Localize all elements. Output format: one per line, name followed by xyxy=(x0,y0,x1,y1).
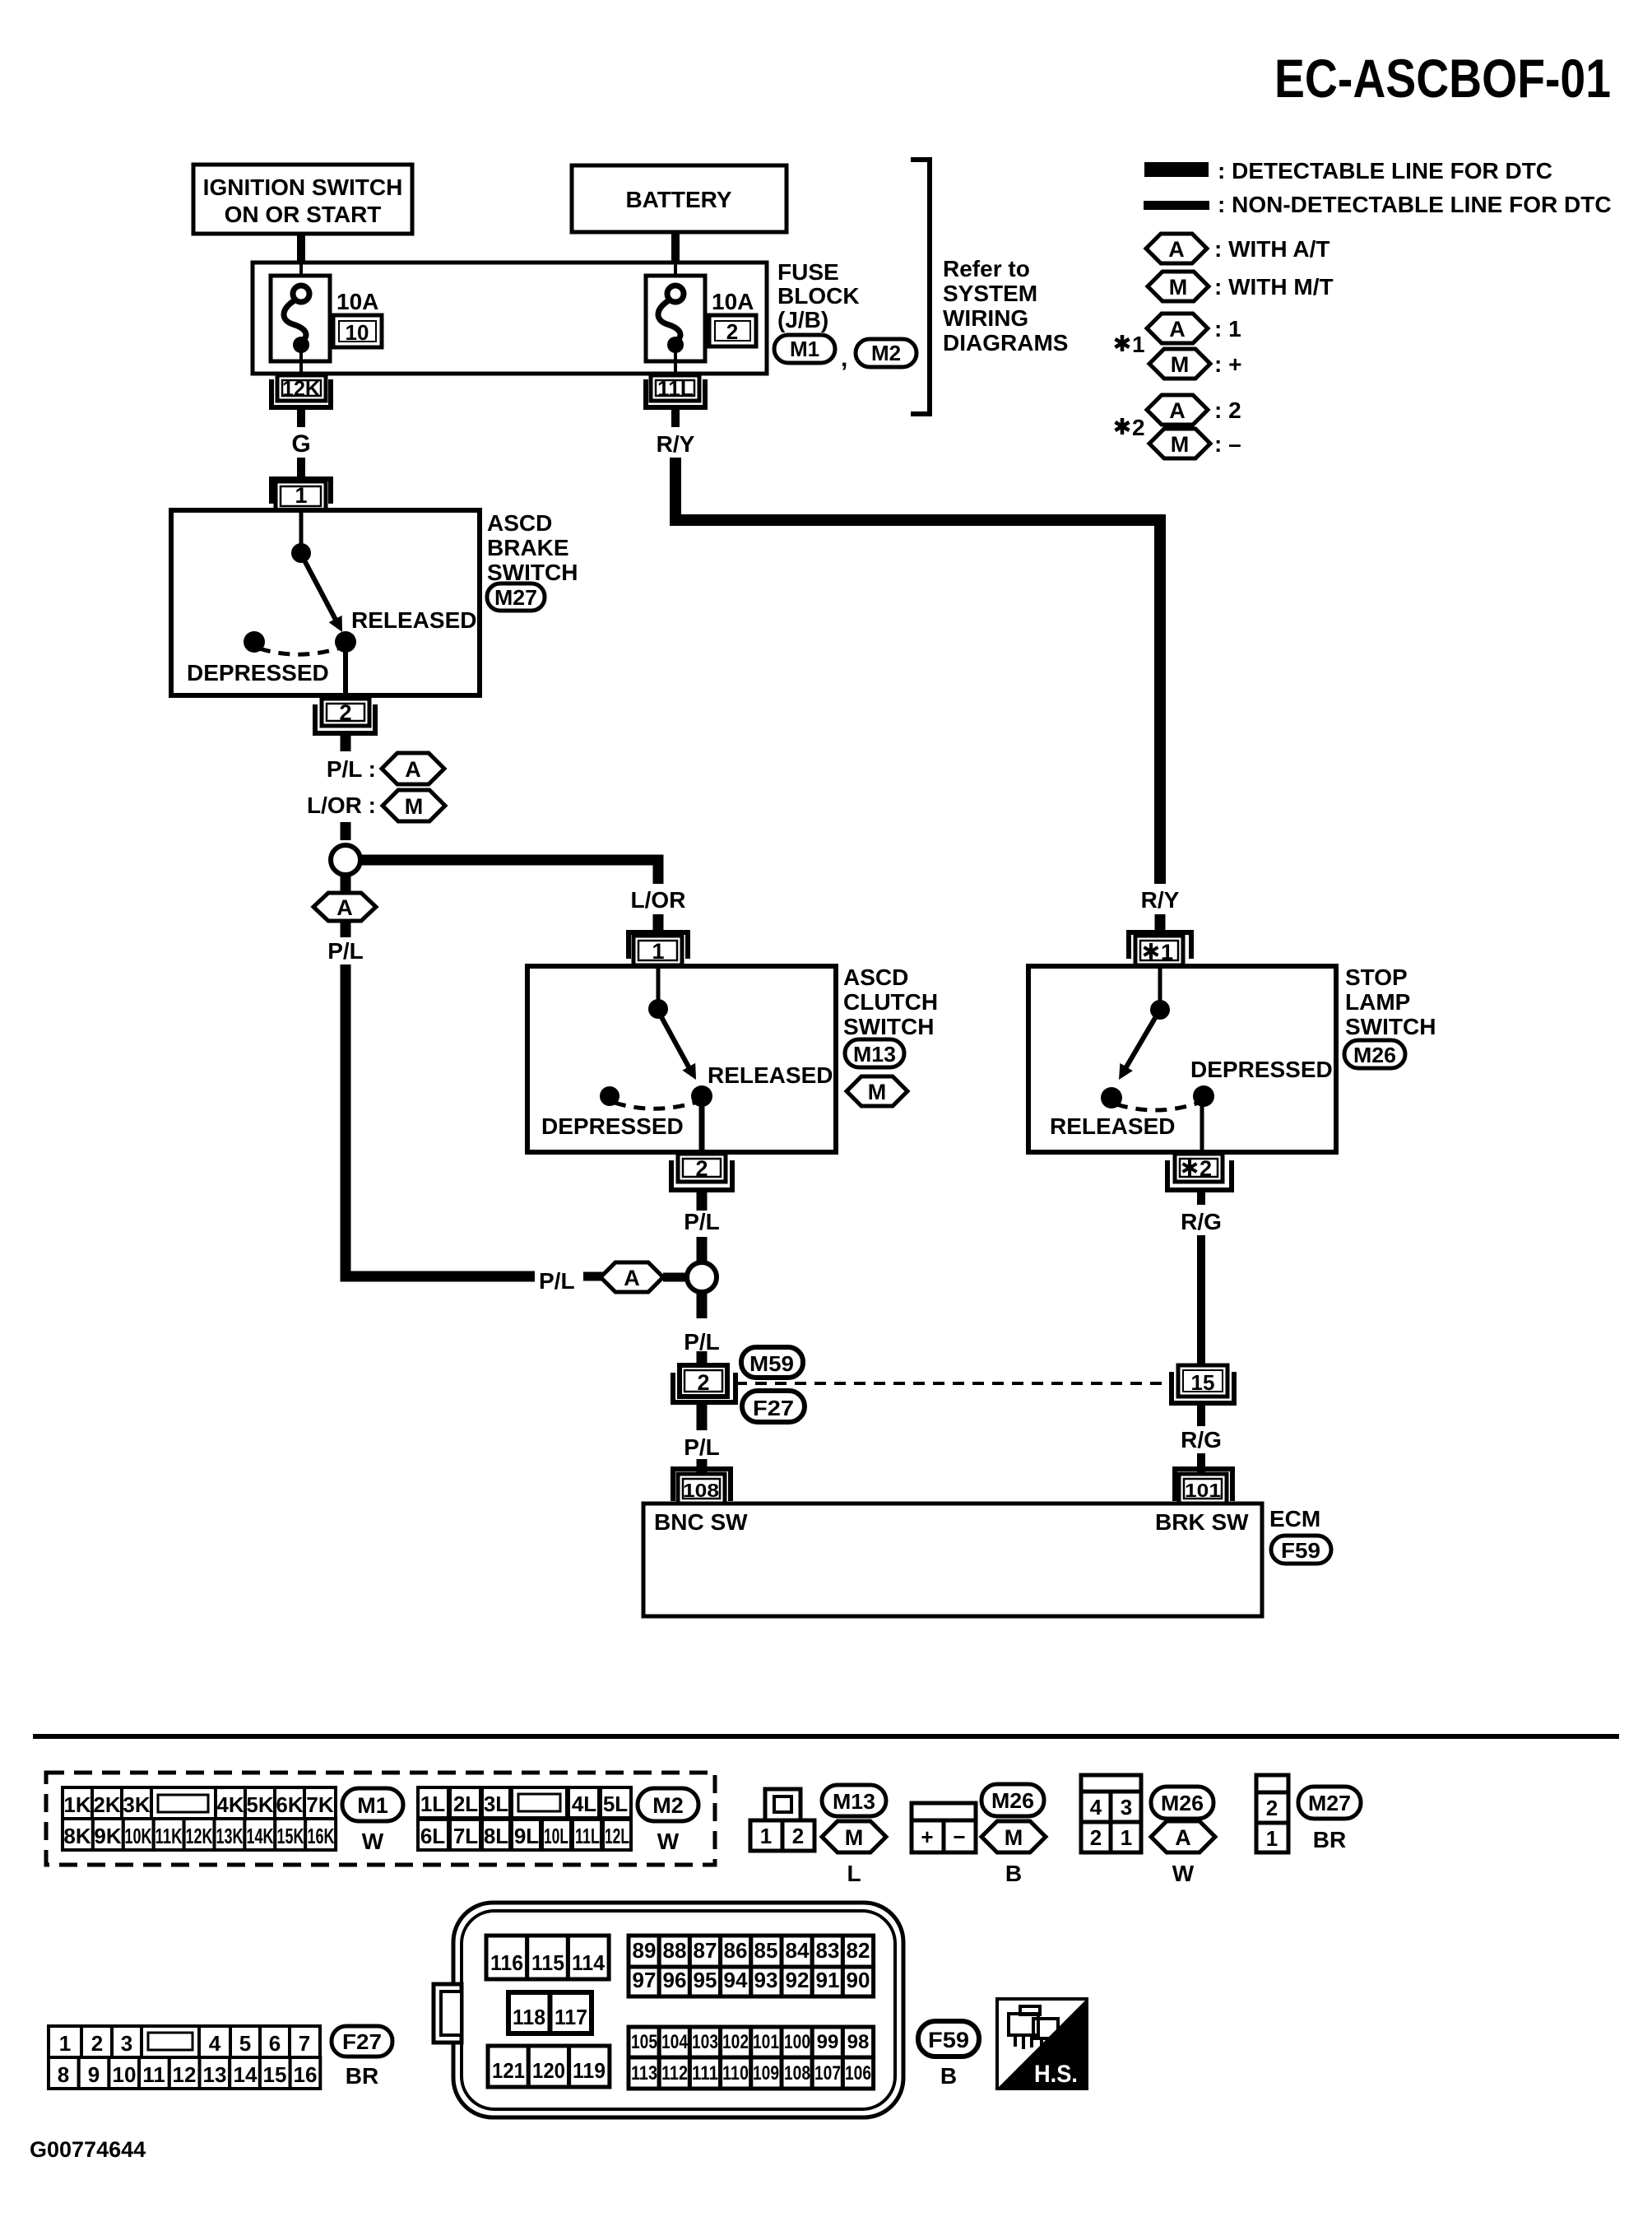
connector M26 oval right xyxy=(1344,1040,1405,1068)
svg-text:A: A xyxy=(624,1266,640,1290)
svg-text:F27: F27 xyxy=(753,1396,794,1420)
svg-text:114: 114 xyxy=(572,1950,606,1975)
svg-text:16: 16 xyxy=(294,2062,318,2087)
svg-text:B: B xyxy=(940,2063,957,2089)
svg-text:BR: BR xyxy=(346,2063,378,2089)
svg-text:4K: 4K xyxy=(216,1792,244,1817)
connector view M26 4321 xyxy=(1081,1775,1141,1852)
svg-text:13K: 13K xyxy=(216,1824,244,1848)
svg-text:10K: 10K xyxy=(125,1824,152,1848)
dashed harness line between 2 and 15 xyxy=(736,1382,1172,1385)
svg-text:8K: 8K xyxy=(63,1824,90,1848)
svg-text:SWITCH: SWITCH xyxy=(487,560,578,585)
svg-text:A: A xyxy=(405,757,421,782)
F59 grid 97-90 xyxy=(629,1967,874,1996)
hexagon M bottom M13 xyxy=(822,1821,886,1886)
svg-text:12: 12 xyxy=(173,2062,197,2087)
svg-text:86: 86 xyxy=(724,1938,748,1963)
svg-text:103: 103 xyxy=(692,2031,718,2053)
svg-text:5: 5 xyxy=(239,2031,251,2056)
wire ignition switch to fuse block xyxy=(297,234,305,265)
svg-text:84: 84 xyxy=(786,1938,810,1963)
svg-text:15K: 15K xyxy=(277,1824,304,1848)
svg-text:121: 121 xyxy=(492,2058,525,2083)
svg-text:2L: 2L xyxy=(453,1792,478,1816)
legend non-detectable line xyxy=(1144,192,1612,217)
svg-text:G00774644: G00774644 xyxy=(30,2137,146,2162)
F59 grid 113-106 xyxy=(629,2057,874,2089)
svg-text:: WITH M/T: : WITH M/T xyxy=(1214,274,1334,300)
wire R/G stop lamp down xyxy=(1181,1190,1222,1368)
connector F27 oval xyxy=(742,1391,805,1422)
svg-text:A: A xyxy=(1168,237,1185,262)
svg-text:90: 90 xyxy=(847,1968,870,1992)
svg-text:R/G: R/G xyxy=(1181,1427,1222,1452)
F59 grid 118-117 xyxy=(508,1992,592,2033)
connector 2 brake switch pin xyxy=(315,699,375,733)
connector 12K xyxy=(271,375,331,407)
svg-text:(J/B): (J/B) xyxy=(777,307,828,332)
svg-text:F59: F59 xyxy=(928,2028,969,2052)
svg-text:10: 10 xyxy=(346,320,369,345)
svg-text:ON OR START: ON OR START xyxy=(225,202,382,227)
legend hexagon A value 1 xyxy=(1147,314,1241,343)
svg-text:P/L: P/L xyxy=(684,1434,720,1460)
connector 2 clutch switch pin xyxy=(671,1154,732,1190)
svg-text:8: 8 xyxy=(58,2062,69,2087)
svg-text:P/L :: P/L : xyxy=(327,756,376,782)
svg-text:F27: F27 xyxy=(342,2029,382,2054)
svg-text:M: M xyxy=(1169,275,1188,300)
wire R/Y label top xyxy=(657,407,695,457)
svg-text:12K: 12K xyxy=(186,1824,213,1848)
svg-text:107: 107 xyxy=(814,2062,841,2085)
svg-text:: 2: : 2 xyxy=(1214,397,1241,423)
svg-text:4: 4 xyxy=(209,2031,221,2056)
svg-text:SWITCH: SWITCH xyxy=(1345,1014,1436,1039)
hexagon A below junction xyxy=(313,876,376,921)
H.S. harness symbol xyxy=(997,1999,1087,2089)
svg-text:2K: 2K xyxy=(93,1792,120,1817)
wire P/L to connector 108 xyxy=(684,1402,720,1474)
svg-text:A: A xyxy=(1169,398,1186,423)
svg-text:W: W xyxy=(657,1829,680,1854)
svg-text:82: 82 xyxy=(847,1938,870,1963)
legend hexagon M with M/T xyxy=(1148,272,1334,301)
svg-text:ASCD: ASCD xyxy=(487,510,552,536)
svg-text:L/OR :: L/OR : xyxy=(307,792,376,818)
svg-text:11L: 11L xyxy=(575,1824,600,1848)
svg-text:M2: M2 xyxy=(652,1793,684,1818)
svg-text:115: 115 xyxy=(531,1950,564,1975)
svg-text:88: 88 xyxy=(663,1938,687,1963)
legend hexagon A with A/T xyxy=(1146,234,1329,263)
svg-text:5L: 5L xyxy=(603,1792,628,1816)
svg-text:1: 1 xyxy=(59,2031,71,2056)
stop lamp switch box xyxy=(1028,966,1336,1152)
svg-text:: +: : + xyxy=(1214,351,1241,377)
svg-text:,: , xyxy=(841,345,847,372)
svg-text:2: 2 xyxy=(1132,415,1145,440)
svg-text:M27: M27 xyxy=(1308,1791,1351,1815)
legend *1 xyxy=(1116,332,1145,357)
svg-text:EC-ASCBOF-01: EC-ASCBOF-01 xyxy=(1274,48,1611,109)
svg-text:8L: 8L xyxy=(484,1824,508,1848)
label L/OR above clutch connector xyxy=(631,887,686,933)
svg-text:120: 120 xyxy=(532,2058,565,2083)
svg-text:−: − xyxy=(953,1824,965,1849)
svg-text:M1: M1 xyxy=(357,1793,388,1818)
stop lamp switch internals xyxy=(1050,969,1333,1154)
svg-text:BR: BR xyxy=(1313,1827,1346,1852)
connector M1 oval xyxy=(774,335,847,372)
svg-text:LAMP: LAMP xyxy=(1345,989,1410,1015)
label P/L with A/T xyxy=(327,753,444,784)
svg-text:91: 91 xyxy=(816,1968,840,1992)
svg-text:7K: 7K xyxy=(306,1792,333,1817)
svg-text:13: 13 xyxy=(203,2062,227,2087)
svg-text:3L: 3L xyxy=(484,1792,508,1816)
svg-text:110: 110 xyxy=(722,2062,749,2085)
svg-text:BNC SW: BNC SW xyxy=(654,1509,748,1535)
svg-text:3: 3 xyxy=(121,2031,132,2056)
connector M13 oval bottom xyxy=(822,1785,886,1816)
svg-text:G: G xyxy=(291,430,310,458)
svg-text:12K: 12K xyxy=(282,376,320,401)
svg-text:98: 98 xyxy=(847,2031,870,2053)
svg-text:M26: M26 xyxy=(1161,1791,1204,1815)
stop lamp switch label xyxy=(1345,964,1436,1039)
svg-text:W: W xyxy=(1172,1861,1195,1886)
svg-text:94: 94 xyxy=(724,1968,748,1992)
svg-text:P/L: P/L xyxy=(684,1329,720,1355)
svg-text:M13: M13 xyxy=(853,1042,896,1067)
svg-text:A: A xyxy=(336,895,353,920)
svg-text:IGNITION SWITCH: IGNITION SWITCH xyxy=(203,174,403,200)
svg-text:M: M xyxy=(1005,1825,1023,1850)
svg-text:RELEASED: RELEASED xyxy=(351,607,476,633)
svg-text:M59: M59 xyxy=(749,1351,794,1376)
svg-text:102: 102 xyxy=(722,2031,749,2053)
svg-text:STOP: STOP xyxy=(1345,964,1408,990)
svg-text:11K: 11K xyxy=(155,1824,183,1848)
svg-text:M13: M13 xyxy=(833,1789,875,1814)
connector M27 oval bottom xyxy=(1298,1787,1361,1852)
svg-text:105: 105 xyxy=(631,2031,657,2053)
svg-text:97: 97 xyxy=(633,1968,657,1992)
svg-text:: NON-DETECTABLE LINE FOR DTC: : NON-DETECTABLE LINE FOR DTC xyxy=(1218,192,1612,217)
svg-text:85: 85 xyxy=(754,1938,778,1963)
svg-text:2: 2 xyxy=(697,1370,709,1395)
svg-text:P/L: P/L xyxy=(327,938,364,964)
svg-text:M: M xyxy=(845,1825,864,1850)
svg-text:BLOCK: BLOCK xyxy=(777,283,860,309)
wire P/L clutch down to junction xyxy=(684,1190,720,1262)
connector F59 oval xyxy=(1271,1536,1331,1564)
svg-text:1: 1 xyxy=(1161,940,1173,964)
svg-text:WIRING: WIRING xyxy=(943,305,1028,331)
connector 1 brake switch pin xyxy=(271,479,331,511)
connector 108 ECM pin xyxy=(673,1469,731,1504)
svg-text:1: 1 xyxy=(1132,332,1145,357)
svg-text:BRAKE: BRAKE xyxy=(487,535,569,560)
svg-text:B: B xyxy=(1005,1861,1022,1886)
ASCD clutch switch internals xyxy=(541,969,833,1154)
svg-text:M: M xyxy=(405,794,424,819)
connector F27 oval bottom xyxy=(332,2026,392,2089)
F59 grid 121-119 xyxy=(488,2046,610,2087)
svg-text:93: 93 xyxy=(754,1968,778,1992)
svg-text:104: 104 xyxy=(661,2031,689,2053)
connector view M13 xyxy=(750,1789,814,1851)
svg-text:H.S.: H.S. xyxy=(1034,2061,1078,2088)
svg-text:: 1: : 1 xyxy=(1214,316,1241,342)
ECM box xyxy=(643,1504,1262,1616)
hexagon A junction row xyxy=(583,1262,686,1292)
F59 keyway notch xyxy=(434,1984,462,2043)
svg-text:10A: 10A xyxy=(712,289,754,314)
svg-text:M2: M2 xyxy=(871,341,901,365)
svg-text:12L: 12L xyxy=(605,1824,629,1848)
svg-text:101: 101 xyxy=(753,2031,779,2053)
connector M13 oval xyxy=(845,1039,904,1067)
svg-text:A: A xyxy=(1175,1825,1191,1850)
fuse block label xyxy=(777,259,860,332)
svg-text:A: A xyxy=(1169,317,1186,342)
svg-text:14K: 14K xyxy=(247,1824,274,1848)
svg-text:111: 111 xyxy=(692,2062,718,2085)
legend hexagon M value - xyxy=(1149,429,1241,458)
svg-text:112: 112 xyxy=(661,2062,688,2085)
connector *1 stop lamp pin xyxy=(1129,932,1191,965)
F59 grid 89-82 xyxy=(629,1936,874,1967)
svg-text:SYSTEM: SYSTEM xyxy=(943,281,1037,306)
svg-text:1: 1 xyxy=(295,483,307,508)
svg-text:2: 2 xyxy=(1090,1825,1102,1850)
svg-text:3K: 3K xyxy=(123,1792,150,1817)
svg-text:10: 10 xyxy=(113,2062,137,2087)
svg-text:5K: 5K xyxy=(246,1792,273,1817)
wire from junction to ASCD clutch switch xyxy=(362,860,658,884)
hexagon M clutch xyxy=(847,1076,907,1106)
svg-text:ECM: ECM xyxy=(1269,1506,1320,1531)
svg-text:9: 9 xyxy=(88,2062,100,2087)
svg-text:2: 2 xyxy=(695,1156,708,1181)
fuse 10A no.2 xyxy=(646,264,756,373)
svg-text:2: 2 xyxy=(91,2031,103,2056)
svg-text:117: 117 xyxy=(555,2005,587,2029)
ASCD clutch switch box xyxy=(527,966,836,1152)
svg-text:ASCD: ASCD xyxy=(843,964,908,990)
svg-text:6: 6 xyxy=(269,2031,281,2056)
svg-text:W: W xyxy=(362,1829,384,1854)
svg-text:DEPRESSED: DEPRESSED xyxy=(1190,1057,1333,1082)
svg-text:DIAGRAMS: DIAGRAMS xyxy=(943,330,1068,356)
svg-text:6L: 6L xyxy=(420,1824,445,1848)
legend hexagon M value + xyxy=(1149,349,1241,379)
fuse block (J/B) outline xyxy=(253,263,767,374)
connector 11L xyxy=(646,375,705,407)
svg-text:99: 99 xyxy=(817,2031,839,2053)
wire G xyxy=(291,407,310,479)
svg-text:2: 2 xyxy=(726,319,738,344)
svg-text:11: 11 xyxy=(142,2062,165,2087)
svg-text:4: 4 xyxy=(1090,1795,1102,1820)
svg-text:RELEASED: RELEASED xyxy=(708,1062,833,1088)
connector 101 ECM pin xyxy=(1175,1469,1232,1504)
svg-text:M27: M27 xyxy=(494,585,537,610)
svg-text:M: M xyxy=(868,1080,887,1104)
svg-text:7L: 7L xyxy=(453,1824,478,1848)
ASCD brake switch box xyxy=(171,510,480,695)
svg-text:14: 14 xyxy=(234,2062,258,2087)
svg-text:DEPRESSED: DEPRESSED xyxy=(541,1113,684,1139)
connector view F59 ECM xyxy=(453,1903,903,2117)
svg-text:1L: 1L xyxy=(420,1792,445,1816)
svg-text:: WITH A/T: : WITH A/T xyxy=(1214,236,1329,262)
connector M59 oval xyxy=(741,1347,803,1378)
svg-text:16K: 16K xyxy=(308,1824,335,1848)
svg-text:M: M xyxy=(1171,432,1190,457)
svg-text:87: 87 xyxy=(694,1938,717,1963)
svg-text:RELEASED: RELEASED xyxy=(1050,1113,1175,1139)
svg-text:M: M xyxy=(1171,352,1190,377)
svg-text:F59: F59 xyxy=(1281,1538,1320,1563)
svg-text:1K: 1K xyxy=(63,1792,90,1817)
svg-text:108: 108 xyxy=(683,1480,719,1501)
wire stub above junction xyxy=(341,822,351,840)
svg-text:116: 116 xyxy=(490,1950,523,1975)
ASCD clutch switch label xyxy=(843,964,938,1039)
ASCD brake switch internals xyxy=(187,511,476,698)
svg-text:2: 2 xyxy=(339,700,351,725)
svg-text:9L: 9L xyxy=(514,1824,539,1848)
svg-text:M26: M26 xyxy=(1353,1043,1396,1067)
dashed group box M1 M2 xyxy=(46,1773,715,1865)
hexagon M bottom M26 xyxy=(981,1821,1046,1886)
connector M2 oval xyxy=(856,339,916,367)
svg-text:108: 108 xyxy=(784,2062,810,2085)
F59 grid 105-98 xyxy=(629,2027,874,2057)
svg-text:15: 15 xyxy=(263,2062,287,2087)
svg-text:113: 113 xyxy=(631,2062,657,2085)
connector M2 oval bottom xyxy=(638,1788,698,1854)
svg-text:1: 1 xyxy=(652,939,664,964)
svg-text:1: 1 xyxy=(760,1824,772,1848)
svg-text:96: 96 xyxy=(663,1968,687,1992)
label R/Y above *1 xyxy=(1141,887,1180,933)
svg-text:Refer to: Refer to xyxy=(943,256,1030,281)
svg-text:P/L: P/L xyxy=(539,1268,575,1294)
connector M27 oval xyxy=(487,583,545,611)
svg-text:L: L xyxy=(847,1861,861,1886)
svg-text:M1: M1 xyxy=(790,337,819,361)
note refer to system wiring diagrams xyxy=(943,256,1068,356)
svg-text:106: 106 xyxy=(845,2062,871,2085)
svg-text:3: 3 xyxy=(1121,1795,1132,1820)
fuse 10A no.10 xyxy=(271,264,382,373)
svg-text:P/L: P/L xyxy=(684,1209,720,1234)
separator line xyxy=(33,1734,1619,1739)
svg-text:CLUTCH: CLUTCH xyxy=(843,989,938,1015)
battery block xyxy=(572,165,787,232)
svg-text:10A: 10A xyxy=(336,289,378,314)
legend *2 xyxy=(1116,415,1145,440)
svg-text:2: 2 xyxy=(1266,1796,1278,1820)
svg-text:119: 119 xyxy=(573,2058,606,2083)
svg-text:100: 100 xyxy=(784,2031,810,2053)
connector 15 xyxy=(1172,1365,1234,1403)
connector 2 M59/F27 xyxy=(673,1365,736,1402)
svg-text:L/OR: L/OR xyxy=(631,887,686,913)
wire R/G to connector 101 xyxy=(1181,1403,1222,1474)
svg-text:15: 15 xyxy=(1191,1370,1215,1395)
svg-text:109: 109 xyxy=(753,2062,779,2085)
connector view M27 xyxy=(1256,1775,1288,1852)
svg-text:4L: 4L xyxy=(572,1792,596,1816)
svg-text:: DETECTABLE LINE FOR DTC: : DETECTABLE LINE FOR DTC xyxy=(1218,158,1552,184)
connector F59 oval bottom xyxy=(918,2021,979,2089)
F59 grid 116-114 xyxy=(486,1936,609,1979)
junction node circle upper xyxy=(331,845,360,875)
bracket refer to system wiring diagrams xyxy=(911,160,930,414)
svg-text:118: 118 xyxy=(513,2005,545,2029)
svg-text:DEPRESSED: DEPRESSED xyxy=(187,660,329,686)
label L/OR with M/T xyxy=(307,790,445,821)
connector view M2 grid xyxy=(418,1787,631,1850)
svg-text:6K: 6K xyxy=(276,1792,303,1817)
svg-text:92: 92 xyxy=(786,1968,810,1992)
svg-text:: –: : – xyxy=(1214,431,1241,457)
connector view M1 grid xyxy=(63,1787,336,1850)
svg-text:9K: 9K xyxy=(94,1824,121,1848)
svg-text:2: 2 xyxy=(792,1824,804,1848)
svg-text:R/Y: R/Y xyxy=(1141,887,1180,913)
svg-text:SWITCH: SWITCH xyxy=(843,1014,934,1039)
svg-text:11L: 11L xyxy=(657,376,694,401)
junction node circle lower xyxy=(687,1262,717,1292)
svg-text:2: 2 xyxy=(1200,1156,1212,1181)
svg-text:10L: 10L xyxy=(544,1824,568,1848)
legend detectable line xyxy=(1144,158,1552,184)
connector M1 oval bottom xyxy=(342,1788,403,1854)
connector M26 oval bottom right xyxy=(1151,1787,1213,1819)
svg-text:BRK SW: BRK SW xyxy=(1155,1509,1249,1535)
svg-text:83: 83 xyxy=(816,1938,840,1963)
wire P/L left branch down xyxy=(327,921,535,1276)
svg-text:101: 101 xyxy=(1185,1480,1221,1501)
svg-text:89: 89 xyxy=(633,1938,657,1963)
wire R/Y battery run xyxy=(675,458,1160,884)
svg-text:1: 1 xyxy=(1121,1825,1132,1850)
wire P/L stub below connector 2 xyxy=(341,733,351,751)
connector view M26 plus minus xyxy=(912,1803,976,1852)
hexagon A bottom M26 xyxy=(1151,1821,1215,1886)
wire P/L to ECM xyxy=(684,1292,720,1365)
svg-text:M26: M26 xyxy=(991,1788,1034,1813)
wire battery to fuse block xyxy=(671,232,680,265)
svg-text:R/G: R/G xyxy=(1181,1209,1222,1234)
svg-text:BATTERY: BATTERY xyxy=(625,187,731,212)
connector M26 oval bottom left xyxy=(981,1784,1044,1816)
legend hexagon A value 2 xyxy=(1147,395,1241,425)
ignition switch block xyxy=(193,165,412,234)
svg-text:+: + xyxy=(921,1824,933,1849)
connector view F27 grid xyxy=(49,2026,320,2089)
connector 1 clutch switch pin xyxy=(629,932,688,965)
svg-text:95: 95 xyxy=(694,1968,717,1992)
svg-text:7: 7 xyxy=(299,2031,310,2056)
